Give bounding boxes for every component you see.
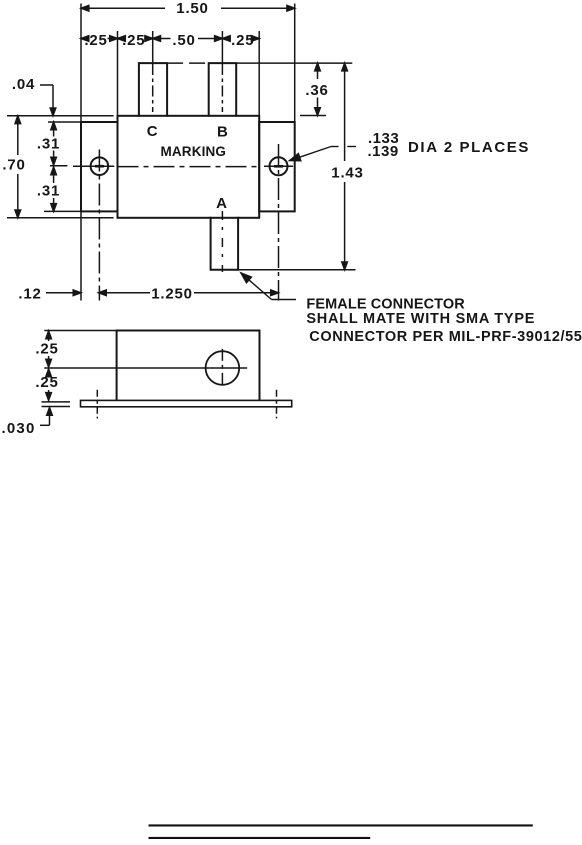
dimension .31 lower bbox=[51, 167, 57, 211]
dimension 1.43 bbox=[342, 63, 348, 270]
svg-text:A: A bbox=[216, 195, 228, 212]
svg-text:.31: .31 bbox=[37, 135, 60, 152]
extension line flange right edge vertical bbox=[294, 4, 296, 123]
dimension 1.50 bbox=[81, 5, 295, 11]
footer rule short bbox=[149, 837, 371, 839]
left hole crosshair bbox=[73, 150, 114, 301]
extension line hole centerline left bbox=[50, 165, 67, 167]
svg-text:SHALL MATE WITH SMA TYPE: SHALL MATE WITH SMA TYPE bbox=[306, 311, 535, 327]
label B bbox=[217, 124, 229, 141]
leader female connector note bbox=[246, 277, 296, 299]
label .133 over .139 bbox=[368, 130, 400, 160]
dimension .50 bbox=[153, 36, 223, 42]
dimension 1.250 bbox=[99, 290, 279, 296]
svg-text:.36: .36 bbox=[305, 82, 328, 99]
right mounting hole bbox=[270, 157, 288, 175]
side view right hole tick bbox=[276, 390, 278, 419]
svg-text:1.43: 1.43 bbox=[331, 165, 363, 182]
label MARKING bbox=[161, 144, 227, 159]
side view top extension line bbox=[44, 330, 116, 332]
side view plate extension lines bbox=[42, 402, 71, 407]
extension line body left edge vertical bbox=[117, 31, 119, 116]
body horizontal centerline bbox=[118, 166, 260, 168]
dimension .70 bbox=[15, 116, 21, 218]
extension line flange left edge vertical bbox=[80, 4, 82, 301]
body outline front view bbox=[118, 116, 260, 218]
dimension .04 bbox=[40, 85, 56, 116]
dimension .12 bbox=[46, 290, 81, 296]
dimension .25 left bbox=[81, 36, 118, 42]
svg-text:.50: .50 bbox=[172, 32, 195, 49]
svg-text:.70: .70 bbox=[2, 157, 25, 174]
label C bbox=[147, 123, 159, 140]
extension line flange top left bbox=[48, 121, 81, 123]
svg-text:.139: .139 bbox=[368, 143, 399, 160]
terminal post A bbox=[211, 218, 239, 270]
dimension .36 bbox=[315, 63, 321, 115]
dimension .25 right bbox=[222, 36, 259, 42]
svg-text:C: C bbox=[147, 123, 159, 140]
left mounting hole bbox=[91, 157, 109, 175]
dimension side .25 upper bbox=[46, 331, 52, 367]
extension line body bottom left bbox=[7, 217, 114, 219]
extension line body top left bbox=[7, 115, 114, 117]
side view body bbox=[117, 331, 260, 401]
label DIA 2 PLACES bbox=[408, 139, 530, 156]
terminal post B bbox=[209, 63, 237, 116]
dimension .31 upper bbox=[51, 122, 57, 165]
svg-text:.04: .04 bbox=[12, 76, 35, 93]
svg-text:.31: .31 bbox=[37, 183, 60, 200]
side view left hole tick bbox=[96, 390, 98, 419]
svg-text:FEMALE CONNECTOR: FEMALE CONNECTOR bbox=[306, 297, 465, 313]
extension line flange bottom left bbox=[44, 210, 81, 212]
dimension side .25 lower bbox=[46, 369, 52, 400]
svg-text:.25: .25 bbox=[231, 32, 254, 49]
extension line body top right bbox=[300, 115, 326, 117]
side view flange plate bbox=[81, 400, 292, 406]
svg-text:.25: .25 bbox=[122, 32, 145, 49]
svg-text:.030: .030 bbox=[2, 420, 36, 437]
svg-text:.25: .25 bbox=[84, 32, 107, 49]
side view connector circle bbox=[206, 351, 240, 385]
leader hole diameter callout bbox=[296, 147, 356, 159]
dimension .030 bbox=[40, 408, 52, 426]
svg-text:B: B bbox=[217, 124, 229, 141]
svg-text:.25: .25 bbox=[35, 374, 58, 391]
post A centerline bbox=[221, 211, 223, 272]
note female connector text bbox=[306, 297, 582, 345]
svg-text:MARKING: MARKING bbox=[161, 144, 227, 159]
dimension .25 second bbox=[118, 36, 153, 42]
svg-text:.12: .12 bbox=[18, 286, 41, 303]
extension line post A bottom right bbox=[238, 269, 355, 271]
left mounting flange bbox=[81, 122, 118, 211]
svg-text:.25: .25 bbox=[35, 340, 58, 357]
extension line post tops right bbox=[167, 62, 352, 64]
post B centerline bbox=[221, 31, 223, 112]
svg-text:1.50: 1.50 bbox=[176, 0, 208, 17]
label A bbox=[216, 195, 228, 212]
svg-text:1.250: 1.250 bbox=[151, 285, 193, 302]
side view circle crosshair bbox=[44, 349, 247, 387]
right mounting flange bbox=[259, 122, 295, 211]
footer rule long bbox=[149, 824, 533, 826]
extension line body right edge vertical bbox=[258, 31, 260, 116]
terminal post C bbox=[139, 63, 167, 116]
svg-text:DIA 2 PLACES: DIA 2 PLACES bbox=[408, 139, 530, 156]
svg-text:CONNECTOR PER MIL-PRF-39012/55: CONNECTOR PER MIL-PRF-39012/55 bbox=[309, 329, 582, 345]
right hole crosshair bbox=[264, 144, 293, 301]
post C centerline bbox=[152, 31, 154, 112]
